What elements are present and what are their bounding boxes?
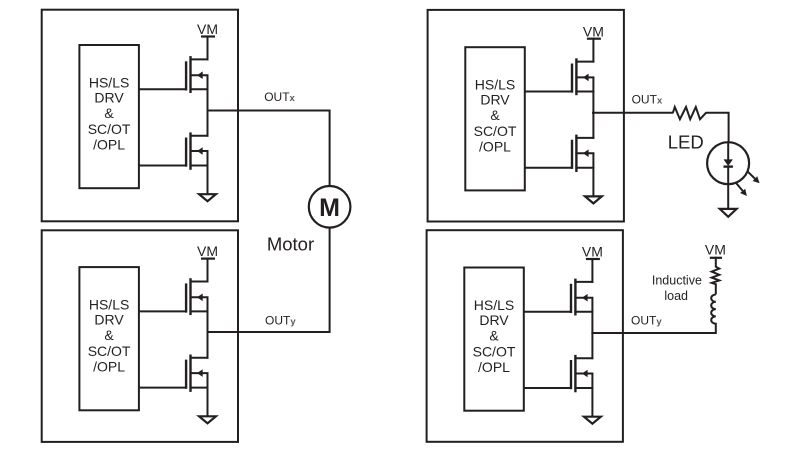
transistor Q2 (low-side NMOS): [139, 132, 209, 169]
svg-text:M: M: [319, 194, 340, 222]
svg-text:DRV: DRV: [94, 311, 124, 327]
transistor Q7 (high-side NMOS): [524, 279, 594, 316]
svg-text:&: &: [104, 327, 114, 343]
wire Q5 source to OUT node to Q6 drain: [592, 77, 594, 138]
svg-text:&: &: [104, 105, 114, 121]
wire OUTx from U3 to resistor R1: [592, 112, 673, 114]
svg-text:load: load: [664, 289, 688, 303]
wire resistor R1 to LED D1: [706, 113, 729, 143]
wire VM to drain of Q7: [591, 258, 593, 283]
wire VM to drain of Q5: [592, 38, 594, 63]
ground symbol of U4 (bottom-right): [584, 417, 601, 424]
wire Q6 source to ground: [592, 153, 594, 196]
svg-text:/OPL: /OPL: [93, 358, 125, 374]
svg-text:VM: VM: [705, 242, 726, 258]
transistor Q5 (high-side NMOS): [525, 58, 595, 95]
ground below LED D1: [720, 209, 737, 217]
ground symbol of U2 (bottom-left): [199, 416, 216, 423]
svg-text:DRV: DRV: [94, 89, 124, 105]
svg-text:SC/OT: SC/OT: [88, 121, 131, 137]
wire OUTx from U1 to motor: [208, 111, 330, 187]
svg-text:HS/LS: HS/LS: [89, 296, 129, 312]
driver block U2 (bottom-left) outer box: [42, 230, 238, 442]
svg-text:HS/LS: HS/LS: [475, 77, 515, 93]
logic block "HS/LS DRV &amp; SC/OT /OPL" of U3 (top-right): [465, 47, 524, 190]
svg-text:Motor: Motor: [267, 233, 314, 254]
svg-text:OUTx: OUTx: [264, 90, 295, 104]
svg-text:VM: VM: [197, 243, 218, 259]
wire VM to drain of Q3: [207, 258, 209, 283]
wire Q8 source to ground: [591, 374, 593, 417]
svg-text:HS/LS: HS/LS: [474, 297, 514, 313]
driver block U3 (top-right) outer box: [428, 10, 624, 222]
LED D1: [707, 142, 760, 208]
resistor R1: [673, 107, 706, 119]
svg-text:DRV: DRV: [479, 312, 509, 328]
logic block "HS/LS DRV &amp; SC/OT /OPL" of U4 (bottom-right): [464, 268, 523, 411]
driver block U1 (top-left) outer box: [42, 10, 238, 222]
svg-text:Inductive: Inductive: [652, 274, 702, 288]
svg-text:VM: VM: [582, 244, 603, 260]
ground symbol of U3 (top-right): [585, 196, 602, 203]
svg-text:HS/LS: HS/LS: [89, 74, 129, 90]
svg-text:SC/OT: SC/OT: [474, 123, 517, 139]
wire VM to drain of Q1: [207, 36, 209, 61]
transistor Q4 (low-side NMOS): [139, 355, 209, 392]
svg-text:DRV: DRV: [480, 92, 510, 108]
wire Q3 source to OUT node to Q4 drain: [207, 297, 209, 359]
transistor Q3 (high-side NMOS): [139, 278, 209, 315]
svg-text:OUTy: OUTy: [631, 314, 662, 328]
inductive load L1 (inductor coil): [711, 295, 716, 324]
wire Q7 source to OUT node to Q8 drain: [591, 298, 593, 360]
svg-text:LED: LED: [668, 132, 704, 153]
svg-text:/OPL: /OPL: [479, 139, 511, 155]
transistor Q1 (high-side NMOS): [139, 56, 209, 93]
svg-text:VM: VM: [583, 23, 604, 39]
svg-text:SC/OT: SC/OT: [88, 343, 131, 359]
transistor Q8 (low-side NMOS): [524, 355, 594, 392]
svg-text:/OPL: /OPL: [93, 136, 125, 152]
inductive load L1 (resistive part): [712, 257, 720, 295]
svg-text:VM: VM: [197, 21, 218, 37]
motor M1: [309, 186, 351, 228]
svg-text:OUTx: OUTx: [632, 92, 663, 106]
wire Q1 source to OUT node to Q2 drain: [207, 75, 209, 137]
svg-text:SC/OT: SC/OT: [473, 343, 516, 359]
ground symbol of U1 (top-left): [199, 194, 216, 201]
transistor Q6 (low-side NMOS): [525, 135, 595, 172]
svg-text:&: &: [490, 107, 500, 123]
wire Q4 source to ground: [207, 373, 209, 416]
svg-text:OUTy: OUTy: [265, 314, 296, 328]
wire Q2 source to ground: [207, 151, 209, 194]
driver block U4 (bottom-right) outer box: [427, 230, 623, 442]
svg-text:/OPL: /OPL: [478, 359, 510, 375]
svg-text:&: &: [489, 327, 499, 343]
wire motor to OUTy of U2: [208, 227, 330, 332]
logic block "HS/LS DRV &amp; SC/OT /OPL" of U2 (bottom-left): [79, 267, 138, 410]
logic block "HS/LS DRV &amp; SC/OT /OPL" of U1 (top-left): [79, 45, 138, 188]
wire OUTy from U4 to inductive load: [591, 323, 715, 333]
